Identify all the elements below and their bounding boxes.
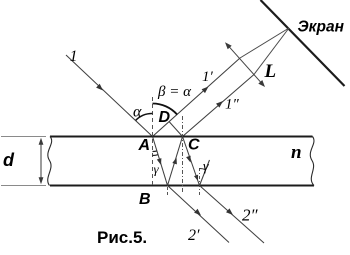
right break squiggle	[310, 137, 314, 186]
svg-text:2″: 2″	[242, 206, 259, 225]
dimension extension line top	[1, 136, 46, 138]
angle beta arc at A	[153, 104, 178, 115]
svg-text:γ: γ	[154, 162, 160, 177]
svg-text:A: A	[138, 137, 151, 154]
svg-text:α: α	[133, 104, 142, 121]
svg-text:n: n	[291, 142, 302, 163]
svg-text:1″: 1″	[225, 97, 240, 113]
svg-text:C: C	[188, 137, 200, 154]
svg-text:Рис.5.: Рис.5.	[97, 228, 147, 247]
normal at A (dashed)	[152, 97, 154, 186]
plate bottom surface	[50, 185, 314, 187]
svg-text:L: L	[264, 61, 277, 82]
ray 1' after lens to screen point	[240, 28, 289, 58]
lens L (double-headed arrow)	[225, 42, 265, 87]
reflected stub at E	[200, 160, 210, 186]
perpendicular segment D to C	[169, 122, 183, 137]
svg-text:1′: 1′	[202, 69, 214, 85]
svg-text:d: d	[3, 150, 15, 170]
normal stub below B	[167, 187, 169, 196]
transmitted ray 2' below plate	[168, 186, 230, 243]
ray C to E inside plate	[183, 137, 200, 186]
angle gamma arc at E	[200, 169, 206, 170]
svg-text:β = α: β = α	[157, 84, 192, 100]
angle alpha arc at A	[136, 113, 153, 120]
reflected ray 1' from A to lens	[153, 58, 241, 137]
svg-text:γ: γ	[203, 160, 209, 175]
dimension extension line bottom	[1, 185, 46, 187]
ray B to C inside plate	[168, 137, 183, 186]
screen (Экран) line	[261, 0, 345, 86]
left break squiggle	[48, 137, 52, 186]
svg-text:B: B	[139, 191, 151, 208]
normal at C (dash-dot)	[182, 116, 184, 193]
thickness arrow d	[39, 138, 44, 184]
refraction angle double arc at A	[153, 150, 157, 153]
refracted ray A to B	[153, 137, 168, 186]
ray 1&quot; after lens to screen point	[254, 28, 289, 75]
svg-text:2′: 2′	[188, 227, 200, 244]
ray 1&quot; from C to lens	[183, 75, 255, 137]
incident ray 1	[66, 55, 153, 137]
svg-text:1: 1	[70, 48, 78, 65]
svg-text:Экран: Экран	[298, 19, 345, 36]
transmitted ray 2&quot; below plate	[200, 186, 265, 244]
normal at E (dotted)	[199, 168, 201, 197]
svg-text:D: D	[159, 109, 171, 126]
plate top surface	[50, 136, 313, 138]
